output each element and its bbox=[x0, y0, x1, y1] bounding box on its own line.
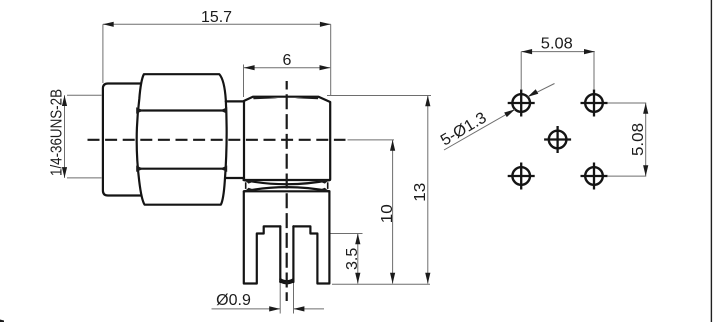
svg-text:10: 10 bbox=[379, 204, 396, 223]
lower flange and legs outline bbox=[244, 191, 330, 283]
dim 10 line bbox=[392, 140, 394, 284]
body top chamfer sliver left bbox=[253, 96, 278, 99]
dim 3.5 line bbox=[357, 234, 359, 284]
dim 3.5 arrows bbox=[355, 234, 360, 245]
hex facet line upper bbox=[138, 109, 226, 111]
svg-text:6: 6 bbox=[283, 52, 292, 69]
thread dim extensions bbox=[67, 94, 102, 96]
hex edge wedge upper-left bbox=[136, 107, 143, 113]
dim 5.08 top extensions bbox=[520, 52, 522, 90]
dim 15.7 arrows bbox=[103, 22, 114, 27]
dim 0.9 arrows bbox=[269, 306, 280, 311]
groove upper edge line bbox=[244, 179, 330, 181]
hex facet line lower bbox=[138, 168, 226, 170]
dim 5.08 right extensions bbox=[608, 102, 647, 104]
svg-text:1/4-36UNS-2B: 1/4-36UNS-2B bbox=[49, 89, 66, 176]
footprint hole bottom-left bbox=[508, 163, 535, 190]
horizontal centerline (main axis) bbox=[88, 139, 346, 141]
thread dim line bbox=[64, 95, 66, 178]
dim 5.08 top arrows bbox=[521, 49, 532, 54]
dim 15.7 line bbox=[103, 23, 331, 25]
svg-text:15.7: 15.7 bbox=[201, 9, 232, 26]
dim 13 top extension bbox=[327, 95, 431, 97]
dim 0.9 extensions bbox=[279, 283, 281, 314]
body top chamfer sliver right bbox=[295, 96, 319, 99]
dim 5.08 right line bbox=[645, 103, 647, 176]
svg-text:5.08: 5.08 bbox=[541, 36, 573, 53]
hex nut outline bbox=[137, 74, 227, 205]
dim 5.08 top line bbox=[521, 51, 595, 53]
groove end wedge right-top bbox=[316, 179, 329, 183]
footprint hole top-right bbox=[581, 90, 608, 117]
groove root edge right bbox=[327, 182, 329, 189]
dim 5.08 right arrows bbox=[643, 103, 648, 114]
svg-text:Ø0.9: Ø0.9 bbox=[216, 292, 251, 309]
dim 15.7 left extension bbox=[102, 24, 104, 83]
hex edge wedge lower-right bbox=[220, 166, 227, 172]
groove root edge left bbox=[245, 182, 247, 189]
footprint hole top-left bbox=[508, 90, 535, 117]
dim 13 arrows bbox=[425, 96, 430, 107]
dim 10 top extension bbox=[348, 139, 395, 141]
dim 15.7 / 6 right extension bbox=[330, 24, 332, 95]
thread dim arrows bbox=[62, 95, 67, 106]
groove end wedge right-bottom bbox=[316, 188, 329, 192]
leader 5-diam1.3 upper segment bbox=[528, 84, 555, 97]
dim 10 arrows bbox=[390, 140, 395, 151]
dim 0.9 line left bbox=[212, 308, 281, 310]
dim 6 line bbox=[244, 67, 330, 69]
bottom common extension bbox=[332, 283, 430, 285]
corner mark bottom-left bbox=[0, 320, 4, 322]
dim 0.9 line right bbox=[294, 308, 324, 310]
hex edge wedge lower-left bbox=[136, 166, 143, 172]
thread barrel (threaded coupling) bbox=[103, 84, 141, 196]
footprint hole center bbox=[544, 126, 571, 153]
dim 13 line bbox=[427, 96, 429, 284]
dim 3.5 top extension bbox=[331, 233, 363, 235]
vertical centerline (body axis) bbox=[286, 81, 288, 301]
groove upper ellipse arc bbox=[244, 180, 330, 184]
svg-text:5.08: 5.08 bbox=[630, 123, 647, 156]
right-angle body upper block bbox=[244, 97, 330, 180]
page border right edge bbox=[710, 0, 712, 322]
neck between nut and body bbox=[226, 100, 244, 102]
groove end wedge left-bottom bbox=[244, 188, 257, 192]
svg-text:13: 13 bbox=[412, 183, 429, 202]
groove lower ellipse arc bbox=[244, 187, 329, 191]
leader 5-diam1.3 lower segment bbox=[444, 109, 515, 150]
groove end wedge left-top bbox=[244, 179, 257, 183]
footprint hole bottom-right bbox=[581, 163, 608, 190]
leader arrows bbox=[504, 109, 515, 117]
hex edge wedge upper-right bbox=[220, 107, 227, 113]
groove lower edge line bbox=[244, 190, 329, 192]
dim 6 arrows bbox=[244, 65, 255, 70]
svg-text:3.5: 3.5 bbox=[344, 248, 361, 270]
dim 6 left extension bbox=[243, 65, 245, 98]
center pin bbox=[280, 226, 293, 282]
